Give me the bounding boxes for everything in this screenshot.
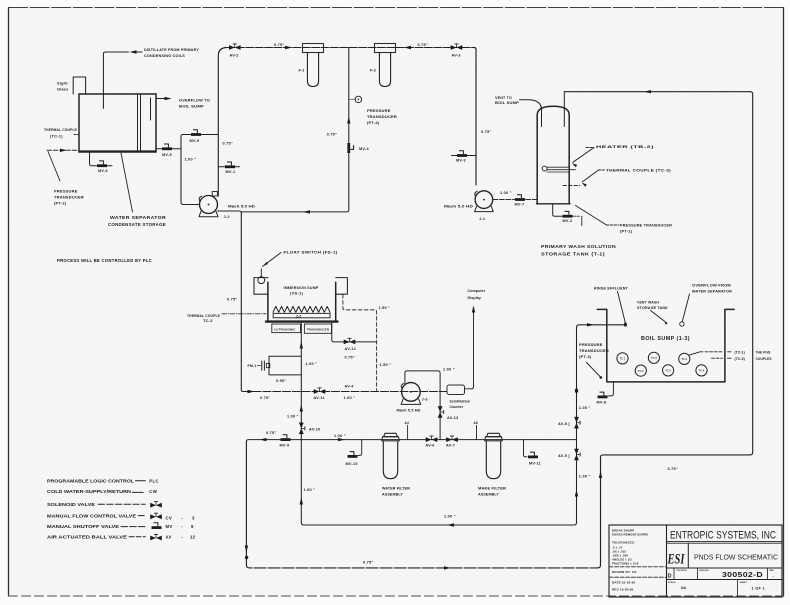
label 1.00 sump drain (306, 362, 318, 366)
pipe CW inlet (47, 149, 79, 151)
immersion sump VS-1 body (266, 282, 338, 321)
label 0.75 L2 (266, 431, 276, 435)
arrow manifold left (285, 46, 292, 49)
label water filter assembly (382, 486, 410, 496)
valve AV-11 (314, 388, 326, 400)
arrow L1 left (248, 390, 255, 393)
label 1.50 mid (380, 363, 392, 367)
make filter assembly (485, 433, 503, 478)
label thermal couple TC-3 (581, 168, 672, 187)
arrow L3 left (447, 523, 454, 526)
label 0.75 sump drain (227, 297, 237, 301)
pipe L1 (241, 213, 446, 392)
label 1.00 L3 (444, 515, 456, 519)
label 1.00 L1 (344, 396, 356, 400)
label sight glass (57, 82, 69, 92)
label vent to boil sump (495, 95, 519, 105)
label boil sump (641, 336, 690, 342)
label thermal couple TC-1 (44, 127, 79, 138)
valve MV-3 (452, 151, 477, 163)
valve AV-2 (229, 44, 241, 58)
pipe sump drain / L3 loop (301, 323, 625, 525)
boil sump tank (597, 309, 734, 382)
pipe to computer display (465, 308, 474, 389)
ultrasonic box (272, 324, 301, 333)
label heater TB-2 (571, 144, 655, 167)
legend manual shutoff valve (47, 523, 194, 529)
label 0.75 manifold right (418, 43, 428, 47)
arrow riser up (575, 490, 578, 497)
sight glass (73, 77, 85, 94)
label thermal couple TC-2 (187, 313, 266, 323)
pointer TC couples (689, 352, 732, 358)
pipe T-1 drain (553, 204, 582, 226)
legend PLC (47, 479, 159, 484)
label pressure transducer PT-4 (367, 108, 397, 125)
arrow sump feed (587, 323, 594, 326)
valve MV-7 (515, 195, 526, 207)
valve AV-8 riser (558, 417, 580, 429)
label AV-4 (345, 384, 355, 388)
label 1.00 L2 (334, 434, 346, 438)
filter F-2 (370, 44, 396, 87)
pipe top manifold (218, 48, 476, 197)
legend air actuated ball valve (47, 534, 196, 540)
pipe distillate inlet (103, 52, 142, 109)
filter F-1 (299, 44, 324, 87)
label pump J-1 (444, 205, 485, 222)
arrow return top (644, 90, 651, 93)
valve MV-4 (347, 143, 369, 153)
boil sump heater thermocouples (617, 352, 707, 376)
arrow PT-4 drop up (347, 117, 350, 124)
water filter assembly (382, 433, 400, 478)
label pump J-2 (224, 205, 256, 219)
label 1.00 riser b (579, 474, 591, 478)
label 0.75 PT-4 drop (327, 133, 337, 137)
pipe overflow to boil sump (156, 98, 167, 100)
label 1.00 above AV-10 (287, 414, 298, 418)
pipe sump right drain (332, 323, 377, 342)
label water separator condensate storage (108, 153, 166, 227)
arrow return down (245, 546, 248, 553)
heater TB-2 element (542, 166, 575, 172)
valve MV-6 (90, 152, 113, 173)
label rinse effluent (594, 286, 628, 325)
label 0.75 manifold left (274, 43, 284, 47)
label 0.75 left riser (223, 142, 233, 146)
label 0.75 return bottom (363, 561, 373, 565)
pipe L2 (246, 440, 576, 442)
arrow riser top (575, 386, 578, 393)
label primary wash solution storage tank (541, 244, 616, 257)
float switch FS-1 (258, 269, 265, 284)
label TC-1 thru TC-5 (735, 350, 772, 361)
transducer box (304, 324, 331, 333)
arrow overflow (165, 97, 172, 100)
arrow return bottom (444, 566, 451, 569)
valve AV-13 (438, 406, 459, 420)
valve MV-5 (156, 144, 181, 157)
valve MV-9 upper (190, 130, 202, 143)
label 1.00 below L2 (304, 488, 316, 492)
pump J-3 (401, 383, 421, 405)
valve AV-3 (451, 44, 463, 58)
label 0.75 return right (668, 467, 678, 471)
valve AV-5 riser (558, 449, 580, 461)
label 0.50 FM (276, 379, 286, 383)
label 1.50 top (379, 306, 391, 310)
valve MV-11 (524, 440, 542, 466)
label distillate from primary condensing coils (144, 47, 199, 58)
arrow CW inlet (60, 149, 67, 152)
valve AV-10 (299, 423, 321, 435)
title block (609, 525, 782, 597)
label 1.00 riser a (579, 406, 591, 410)
junction dot sump feed (624, 323, 627, 326)
float chamber (254, 278, 268, 295)
transducer plate (273, 313, 330, 318)
junction dot L1 right (575, 389, 578, 392)
label overflow from water separator (680, 284, 732, 327)
arrow sump drain 1 (300, 342, 303, 349)
heating coil zigzag (273, 306, 330, 312)
valve MV-10 (346, 440, 362, 466)
label overflow to boil sump (179, 98, 210, 109)
valve AV-12 (344, 338, 356, 359)
label pressure transducer PT-1 (576, 206, 673, 234)
sample port A4 (405, 421, 410, 440)
pipe PT-4 drop (242, 48, 349, 212)
legend manual flow control valve (47, 513, 195, 520)
pump J-2 (199, 192, 218, 217)
tank T-1 primary wash solution storage (537, 92, 571, 204)
legend CW (47, 489, 158, 494)
pipe vent to boil sump (520, 100, 542, 127)
thermocouple TC-3 element (563, 185, 580, 187)
arrow return riser (599, 471, 602, 478)
label computer display (468, 289, 486, 300)
gauge PT-4 (349, 96, 362, 102)
pipe riser to pump J-2 (181, 135, 218, 205)
valve AV-6 (426, 436, 438, 447)
valve AV-7 (446, 436, 458, 447)
label vent wash storage tank (637, 301, 668, 325)
pipe J-3 discharge loop (405, 371, 440, 440)
flow meter FM-1 bypass (262, 356, 302, 375)
pipe CW dashed (343, 295, 377, 391)
valve MV-9 (280, 435, 291, 447)
pipe return loop to T-1 (564, 92, 752, 565)
label 1.00 J-3 (443, 368, 455, 372)
pipe pump J-1 discharge (493, 191, 537, 200)
arrow L2 left (260, 438, 267, 441)
legend solenoid valve (47, 502, 162, 508)
valve MV-2 (563, 211, 573, 222)
pipe return bottom run (246, 442, 600, 568)
scintillation counter (447, 385, 470, 409)
arrow L2 mid (338, 438, 345, 441)
arrow sump drain 2 (300, 405, 303, 412)
junction dot return (245, 556, 248, 559)
label float switch FS-1 (262, 249, 338, 267)
label process controlled by PLC (57, 258, 152, 263)
label pump J-3 (397, 398, 428, 413)
arrow to pump J-2 junction (303, 210, 310, 213)
label pressure transducer PT-2 (48, 152, 84, 206)
arrow sump drain 3 (300, 498, 303, 505)
valve MV-1 (218, 162, 239, 174)
arrow manifold right (404, 46, 411, 49)
label immersion sump VS-1 (284, 285, 319, 296)
arrow distillate (130, 50, 137, 53)
label 0.75 right drop (481, 130, 491, 134)
tank water separator condensate storage (79, 94, 156, 152)
sump right box (336, 278, 348, 295)
label make filter assembly (478, 486, 506, 496)
label FM-1 (248, 364, 261, 368)
label pressure transducer PT-3 (579, 342, 609, 379)
label 0.75 L1 (260, 396, 270, 400)
valve MV-8 (597, 382, 614, 404)
sample port A6 (474, 421, 479, 440)
pipe J-2 outlet (218, 211, 242, 213)
pump J-1 (475, 191, 494, 212)
arrow computer display (472, 306, 475, 313)
